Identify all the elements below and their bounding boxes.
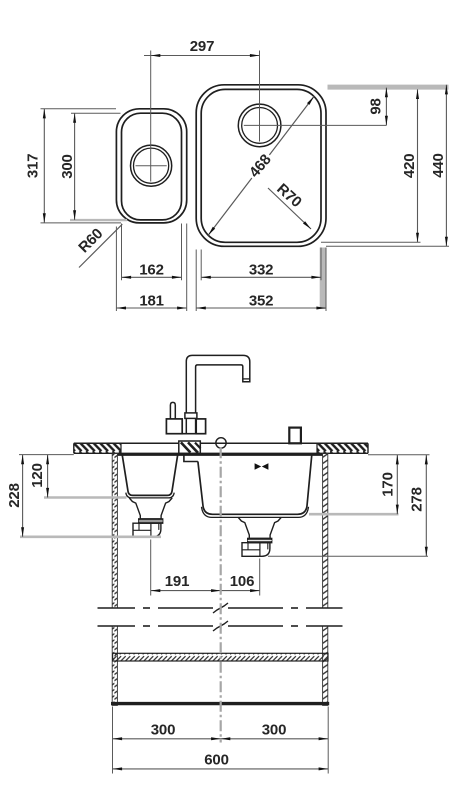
faucet body centre pipe: [185, 418, 187, 433]
svg-text:191: 191: [165, 573, 189, 590]
svg-text:181: 181: [139, 292, 163, 309]
svg-text:352: 352: [249, 292, 273, 309]
ext line small drain down to 191 dim: [150, 540, 152, 596]
small bowl outer outline (181x317): [116, 109, 186, 223]
counter top line: [74, 442, 368, 444]
cabinet left wall: [112, 453, 117, 608]
centreline (dash-dot): [220, 447, 222, 742]
dim 300 (small bowl inner height): [71, 112, 121, 114]
svg-text:120: 120: [29, 463, 46, 487]
ext line large drain down to 106 dim: [259, 559, 261, 596]
small drain centre cross: [136, 165, 167, 167]
counter bottom line: [74, 452, 368, 454]
faucet lever handle: [170, 402, 175, 419]
svg-text:98: 98: [367, 98, 384, 114]
ref ext line at rim level right: [368, 454, 430, 456]
large bowl drain hole: [238, 104, 281, 147]
faucet spout tip line: [243, 378, 250, 380]
svg-text:106: 106: [230, 573, 254, 590]
large bowl outer outline (352x440): [196, 85, 326, 247]
dim 420 (large bowl inner height): [321, 241, 421, 243]
svg-text:300: 300: [59, 154, 76, 178]
pop-up knob on rim: [216, 438, 226, 448]
dim 278 (depth to large trap): [425, 455, 427, 557]
gray extension band - bowl top edge to right dims: [328, 85, 449, 90]
faucet spout outline: [186, 355, 250, 413]
dim 98 (bowl top to drain centre): [385, 88, 387, 126]
dim 440 (large bowl outer height): [326, 245, 449, 247]
small bowl drain hole: [131, 145, 172, 186]
dim 468 (bowl diagonal): [208, 96, 314, 235]
shelf (hatched): [113, 653, 328, 661]
svg-text:440: 440: [430, 153, 447, 177]
large drain centre cross / 98-extension: [244, 124, 387, 126]
large bowl section profile: [198, 455, 312, 515]
gray ext line - small bowl inner bottom (120): [44, 496, 127, 499]
drain trap elbow: [242, 543, 270, 557]
dim 181 (small bowl outer width): [115, 227, 117, 312]
dim 297 (drain to drain): [150, 51, 152, 182]
ref ext line at rim level left: [19, 454, 74, 456]
dim 120 (small bowl depth): [47, 455, 49, 498]
drain strainer funnel: [129, 498, 172, 519]
gray extension band - bowl right edge down to 352 dim: [320, 248, 326, 310]
ext line right wall down to bottom dims: [327, 707, 329, 774]
cabinet bottom: [111, 702, 329, 705]
faucet collar: [185, 413, 197, 419]
svg-text:162: 162: [139, 262, 163, 279]
cabinet right wall: [323, 453, 328, 608]
svg-text:300: 300: [151, 721, 175, 738]
svg-text:170: 170: [379, 472, 396, 496]
counter slab hatched left part: [74, 444, 121, 453]
faucet body left block: [166, 419, 182, 434]
gray ext line - large bowl inner bottom (170): [309, 513, 399, 516]
drain flange: [248, 538, 272, 542]
drain strainer funnel: [238, 517, 281, 538]
faucet body right block: [196, 419, 205, 434]
svg-text:300: 300: [262, 721, 286, 738]
svg-text:228: 228: [6, 483, 23, 507]
dim 300 left half: [113, 738, 329, 740]
ext line left wall down to bottom dims: [112, 707, 114, 774]
svg-text:297: 297: [190, 38, 214, 55]
dim 191 (small drain to centreline): [151, 590, 221, 592]
break line upper: [98, 607, 136, 609]
divider between bowls: [184, 455, 198, 462]
dim 228 (depth to small trap): [22, 455, 24, 537]
large bowl outer bottom line: [202, 507, 309, 518]
dim 170 (large bowl depth): [396, 455, 398, 514]
dim 106 (centreline to large drain): [221, 590, 260, 592]
large bowl inner outline (332x420, R70): [201, 89, 321, 242]
dim 332 (large bowl inner width): [200, 250, 202, 281]
soap dispenser / knob on counter (side view rect): [289, 428, 301, 444]
small bowl outer bottom line: [126, 493, 174, 498]
break line lower: [98, 625, 136, 627]
radius label R60: [79, 224, 122, 267]
counter slab hatched right part: [317, 444, 368, 453]
svg-text:317: 317: [24, 154, 41, 178]
dim 600 overall width: [113, 768, 329, 770]
drain flange: [139, 519, 163, 523]
dim 162 (small bowl inner width): [121, 224, 123, 281]
gray ext line - small trap bottom (228): [20, 535, 161, 538]
sink rim line (undermount): [118, 454, 323, 456]
svg-text:600: 600: [204, 751, 228, 768]
small bowl inner outline (162x300, R60): [122, 113, 182, 220]
small bowl section profile: [122, 455, 178, 496]
svg-text:332: 332: [249, 262, 273, 279]
dim 317 (small bowl outer height): [41, 108, 117, 110]
extension line from large trap bottom to 278 dim: [268, 555, 428, 557]
faucet mounting shank (hatched): [179, 441, 201, 453]
overflow symbol in large bowl: [255, 463, 262, 469]
radius label R70: [268, 188, 311, 229]
drain trap elbow: [133, 523, 161, 537]
svg-text:278: 278: [408, 487, 425, 511]
svg-text:420: 420: [401, 154, 418, 178]
dim 352 (large bowl outer width): [195, 250, 197, 312]
